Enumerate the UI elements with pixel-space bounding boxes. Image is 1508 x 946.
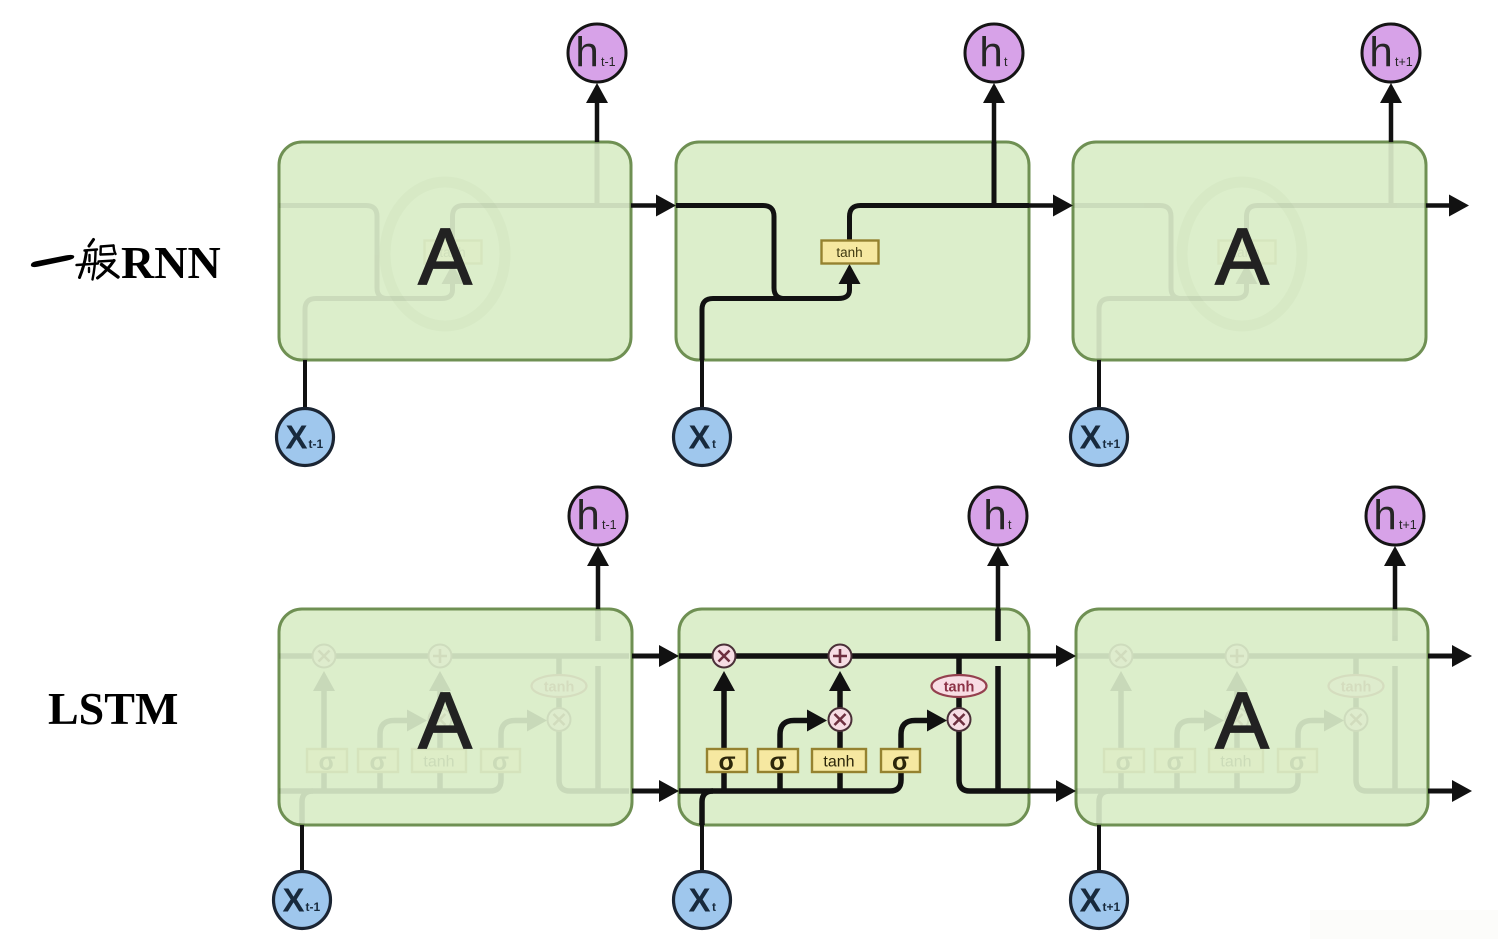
svg-text:t-1: t-1 [602, 518, 617, 532]
svg-text:X: X [1079, 882, 1101, 919]
svg-text:t: t [712, 437, 716, 451]
svg-text:X: X [282, 882, 304, 919]
svg-text:h: h [979, 29, 1002, 76]
svg-text:t+1: t+1 [1395, 55, 1413, 69]
svg-text:LSTM: LSTM [48, 683, 178, 734]
svg-text:t-1: t-1 [601, 55, 616, 69]
svg-text:t-1: t-1 [309, 437, 324, 451]
svg-text:A: A [1215, 212, 1269, 301]
svg-text:h: h [575, 29, 598, 76]
svg-text:RNN: RNN [121, 237, 221, 288]
svg-text:A: A [1215, 676, 1269, 765]
svg-text:A: A [418, 212, 472, 301]
svg-text:A: A [418, 676, 472, 765]
svg-text:X: X [285, 419, 307, 456]
svg-text:t: t [1004, 55, 1008, 69]
svg-text:h: h [1373, 492, 1396, 539]
svg-text:t-1: t-1 [306, 900, 321, 914]
svg-text:X: X [688, 882, 710, 919]
svg-text:t+1: t+1 [1103, 437, 1121, 451]
svg-text:t+1: t+1 [1399, 518, 1417, 532]
svg-text:X: X [1079, 419, 1101, 456]
svg-text:h: h [576, 492, 599, 539]
svg-text:X: X [688, 419, 710, 456]
svg-text:t+1: t+1 [1103, 900, 1121, 914]
svg-text:h: h [983, 492, 1006, 539]
svg-text:t: t [1008, 518, 1012, 532]
svg-text:t: t [712, 900, 716, 914]
svg-text:h: h [1369, 29, 1392, 76]
